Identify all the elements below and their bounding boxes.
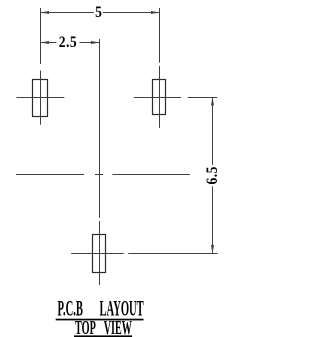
label TOP VIEW — [74, 318, 132, 337]
pad P1 vertical crosshair — [40, 71, 42, 125]
svg-text:P.C.B: P.C.B — [58, 296, 84, 321]
svg-text:6.5: 6.5 — [204, 166, 221, 185]
dimension 2.5 : dimension line — [41, 42, 100, 44]
dimension 5 : extension line left (x=40) — [40, 8, 42, 64]
dimension 5 : left arrowhead — [41, 11, 50, 14]
dimension 5 : dimension line — [41, 12, 160, 14]
svg-text:2.5: 2.5 — [59, 34, 78, 51]
svg-text:VIEW: VIEW — [104, 318, 132, 337]
pad P3 horizontal crosshair — [71, 253, 124, 255]
pad P2 vertical crosshair — [159, 66, 161, 128]
dimension 6.5 : top arrowhead — [211, 97, 214, 106]
svg-text:TOP: TOP — [75, 318, 96, 337]
pad P3 extension to 6.5 dimension — [128, 253, 217, 255]
pad P2 (top-right) rectangle — [153, 80, 166, 115]
horizontal centerline (y=174) — [16, 174, 190, 176]
vertical centerline (x=99) — [99, 39, 101, 218]
dimension 6.5 : dimension line (x=212.7) — [212, 98, 214, 254]
dimension 2.5 : right arrowhead — [91, 41, 100, 44]
dimension 6.5 : bottom arrowhead — [211, 245, 214, 254]
svg-text:5: 5 — [95, 4, 102, 21]
pad P3 vertical crosshair — [99, 221, 101, 285]
label P.C.B LAYOUT — [56, 296, 144, 321]
pad P3 (bottom-center) rectangle — [93, 235, 106, 273]
dimension 5 : extension line right (x=159.5) — [159, 8, 161, 63]
pad P2 horizontal crosshair — [134, 97, 181, 99]
svg-text:LAYOUT: LAYOUT — [100, 296, 144, 321]
pad P1 horizontal crosshair — [17, 97, 65, 99]
pad P1 (top-left) rectangle — [33, 80, 48, 117]
dimension 5 : right arrowhead — [151, 11, 160, 14]
pad P2 extension to 6.5 dimension — [188, 97, 218, 99]
dimension 2.5 : left arrowhead — [41, 41, 50, 44]
